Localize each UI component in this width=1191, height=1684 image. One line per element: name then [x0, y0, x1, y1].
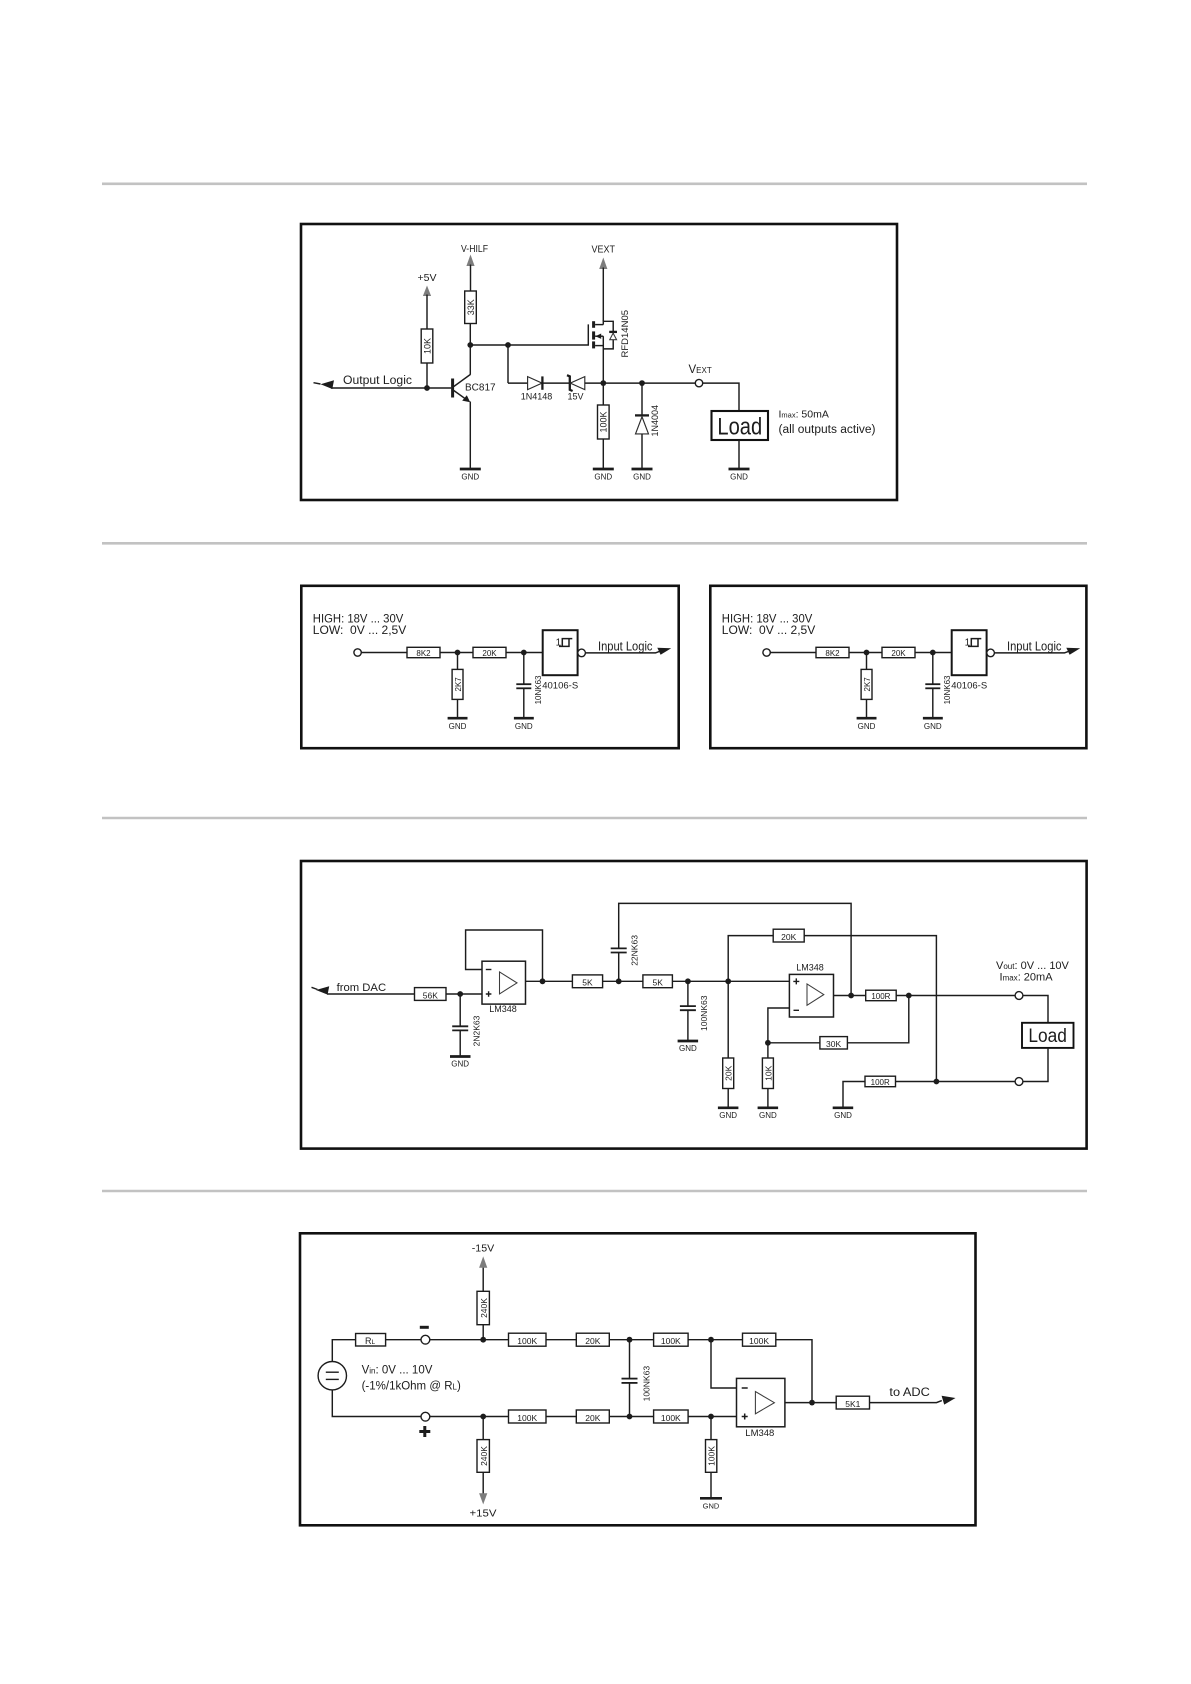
wire 8K2 to 20K (b) [849, 652, 882, 654]
svg-text:GND: GND [449, 722, 467, 731]
node collector [467, 342, 473, 348]
svg-text:+15V: +15V [470, 1508, 497, 1519]
node plus input tee [708, 1414, 714, 1420]
svg-text:240K: 240K [479, 1298, 489, 1318]
annotation Imax [779, 409, 876, 436]
svg-text:Vin: 0V ... 10V: Vin: 0V ... 10V [362, 1364, 433, 1376]
wire opamp2 minus input [768, 1008, 790, 1043]
separator rule 1 [102, 183, 1087, 186]
svg-text:10K: 10K [763, 1065, 773, 1080]
node 22NK63 [616, 978, 622, 984]
capacitor 2N2K63 [452, 994, 481, 1056]
ground (20K) [718, 1108, 739, 1120]
node 240K bottom [480, 1414, 486, 1420]
svg-text:Imax: 20mA: Imax: 20mA [1000, 971, 1054, 983]
ground (10K) [758, 1108, 779, 1120]
wire to load top [1023, 996, 1048, 1023]
node cap bottom [627, 1414, 633, 1420]
svg-text:20K: 20K [585, 1336, 600, 1346]
voltage source Vin [318, 1362, 346, 1390]
resistor 5K1 [836, 1396, 869, 1409]
terminal Vout plus [1015, 992, 1023, 1000]
svg-text:GND: GND [451, 1060, 469, 1069]
svg-text:GND: GND [719, 1111, 737, 1120]
svg-text:-15V: -15V [472, 1244, 495, 1255]
node output feedback [809, 1400, 815, 1406]
node minus input tee [708, 1337, 714, 1343]
node return junction [934, 1079, 940, 1085]
capacitor 10NK63 [516, 653, 543, 718]
resistor 8K2 (b) [816, 647, 849, 658]
svg-text:100K: 100K [661, 1336, 681, 1346]
wire bottom run 1 [430, 1416, 509, 1418]
svg-text:100K: 100K [517, 1336, 537, 1346]
svg-text:100R: 100R [871, 992, 890, 1001]
node base junction [424, 385, 430, 391]
separator rule 4 [102, 1190, 1087, 1193]
pin output bubble (b) [987, 649, 995, 657]
svg-text:100K: 100K [599, 411, 609, 432]
svg-text:20K: 20K [724, 1065, 734, 1080]
svg-text:V-HILF: V-HILF [461, 243, 488, 255]
separator rule 2 [102, 542, 1087, 545]
svg-text:to ADC: to ADC [889, 1387, 930, 1399]
ground (emitter) [460, 469, 481, 482]
svg-text:10K: 10K [422, 338, 432, 354]
diode D2 1N4004 [635, 383, 660, 469]
ground (2N2K63) [450, 1057, 471, 1069]
op-amp U3 LM348 buffer [482, 961, 526, 1014]
schematic frame 4 [300, 1233, 976, 1525]
diode D1 1N4148 [521, 376, 553, 401]
resistor 10K to ground [762, 1043, 773, 1108]
ground 2K7 (b) [857, 718, 877, 731]
svg-text:LM348: LM348 [489, 1004, 517, 1014]
node input [457, 991, 463, 997]
wire top run 4 [688, 1339, 742, 1341]
svg-text:5K: 5K [652, 978, 663, 988]
svg-text:2K7: 2K7 [863, 677, 872, 692]
annotation Vout [996, 960, 1070, 983]
zener diode 15V [567, 375, 585, 401]
svg-text:GND: GND [461, 473, 479, 482]
node feedback [540, 978, 546, 984]
wire output [585, 651, 661, 653]
wire zener to VEXT terminal [585, 382, 696, 384]
supply VEXT (drain) [592, 244, 616, 322]
svg-text:100K: 100K [749, 1336, 769, 1346]
resistor 100K to ground [706, 1417, 717, 1498]
wire base [331, 387, 451, 389]
svg-text:1N4004: 1N4004 [650, 405, 660, 437]
svg-text:100K: 100K [517, 1413, 537, 1423]
svg-text:15V: 15V [567, 392, 583, 402]
svg-text:LM348: LM348 [745, 1428, 774, 1439]
wire 10K to base [426, 363, 428, 388]
wire opamp1 output [526, 980, 573, 982]
wire 56K to opamp [446, 993, 482, 995]
load block [712, 411, 769, 440]
schematic frame 2b [710, 586, 1086, 748]
ground 10NK63 (b) [923, 718, 943, 731]
pin output bubble [578, 649, 586, 657]
svg-text:HIGH: 18V ... 30V: HIGH: 18V ... 30V [313, 613, 404, 625]
wire feedback loop opamp1 [466, 930, 543, 981]
resistor 100K top first [509, 1333, 547, 1346]
svg-text:100NK63: 100NK63 [642, 1366, 652, 1402]
schematic frame 3 [301, 861, 1087, 1149]
svg-text:GND: GND [633, 473, 651, 482]
svg-text:100NK63: 100NK63 [699, 995, 709, 1031]
node output feedback [848, 993, 854, 999]
svg-text:Load: Load [717, 413, 762, 440]
wire source bottom [332, 1390, 421, 1417]
wire RL to terminal [386, 1339, 421, 1341]
terminal arrow from DAC [312, 986, 330, 994]
terminal plus [421, 1412, 430, 1421]
resistor 100R bottom [843, 1076, 1015, 1108]
supply +5V [418, 272, 437, 329]
wire between diodes [542, 382, 569, 384]
wire to diode [508, 382, 528, 384]
svg-text:8K2: 8K2 [825, 649, 840, 658]
wire collector to gate tee [470, 344, 508, 346]
svg-text:240K: 240K [479, 1446, 489, 1466]
ground (10NK63) [514, 718, 534, 731]
svg-text:(-1%/1kOhm @ RL): (-1%/1kOhm @ RL) [362, 1381, 461, 1393]
node minus divider [765, 1040, 771, 1046]
schematic frame 2a [301, 586, 678, 748]
svg-text:VEXT: VEXT [592, 244, 616, 256]
resistor 100K bottom first [509, 1410, 547, 1423]
wire gate [508, 324, 588, 345]
node gate tee [505, 342, 511, 348]
terminal Vout minus [1015, 1078, 1023, 1086]
node cap top [627, 1337, 633, 1343]
terminal arrow Input Logic [657, 648, 671, 655]
resistor 20K [473, 647, 506, 658]
resistor 100K feedback [743, 1333, 813, 1402]
svg-text:(all outputs active): (all outputs active) [779, 424, 876, 436]
supply +15V [470, 1472, 497, 1519]
ground (100NK63) [678, 1041, 699, 1053]
svg-text:LOW: 0V ... 2,5V: LOW: 0V ... 2,5V [313, 625, 407, 637]
wire to ADC [870, 1401, 942, 1403]
wire opamp output [785, 1402, 836, 1404]
load block 2 [1022, 1023, 1074, 1048]
node divider (b) [864, 650, 870, 656]
svg-text:VEXT: VEXT [689, 364, 712, 376]
svg-text:40106-S: 40106-S [951, 681, 987, 692]
capacitor 10NK63 (b) [925, 653, 952, 718]
svg-text:BC817: BC817 [465, 383, 496, 394]
wire to opamp2 plus [672, 980, 789, 982]
svg-text:GND: GND [759, 1111, 777, 1120]
resistor 100K top second [654, 1333, 689, 1346]
ground (load) [729, 440, 750, 482]
svg-text:RFD14N05: RFD14N05 [620, 310, 631, 358]
separator rule 3 [102, 817, 1087, 820]
resistor 20K bottom [576, 1410, 609, 1423]
wire source top [332, 1340, 355, 1362]
svg-text:22NK63: 22NK63 [629, 935, 639, 966]
node source junction [600, 380, 606, 386]
schematic frame 1 [301, 224, 897, 500]
resistor 56K [415, 988, 447, 1001]
svg-text:100K: 100K [707, 1446, 717, 1466]
resistor 8K2 [407, 647, 440, 658]
annotation Vin [362, 1364, 461, 1392]
resistor 2K7 [452, 653, 463, 718]
svg-text:GND: GND [730, 473, 748, 482]
wire top run 1 [430, 1339, 509, 1341]
wire gate-node drop [507, 345, 509, 383]
resistor 5K first [572, 975, 602, 988]
resistor 5K second [643, 975, 673, 988]
resistor 2K7 (b) [861, 653, 872, 718]
node 240K top [480, 1337, 486, 1343]
resistor 10K [421, 329, 433, 363]
terminal arrow to ADC [942, 1396, 956, 1405]
svg-text:Vout: 0V ... 10V: Vout: 0V ... 10V [996, 960, 1070, 972]
svg-text:GND: GND [515, 722, 533, 731]
svg-text:Output Logic: Output Logic [343, 375, 412, 387]
resistor 100R top [866, 990, 897, 1001]
svg-text:20K: 20K [482, 649, 497, 658]
ground (100K) [593, 469, 614, 482]
capacitor 100NK63 [680, 981, 709, 1041]
wire 20K to gate (b) [915, 652, 952, 654]
svg-text:from DAC: from DAC [337, 982, 387, 994]
resistor 20K to ground [723, 981, 734, 1107]
svg-text:5K: 5K [582, 978, 593, 988]
op-amp U4 LM348 output [789, 963, 833, 1017]
wire bottom run 3 [609, 1416, 653, 1418]
terminal input (b) [763, 649, 770, 656]
svg-text:30K: 30K [826, 1039, 841, 1049]
wire to opamp minus [711, 1340, 737, 1388]
svg-text:8K2: 8K2 [416, 649, 431, 658]
node filter [521, 650, 527, 656]
terminal input [354, 649, 361, 656]
node sense [906, 993, 912, 999]
svg-text:20K: 20K [891, 649, 906, 658]
wire 33K to collector node [469, 324, 471, 346]
terminal arrow Input Logic (b) [1066, 648, 1080, 655]
resistor 240K top [477, 1291, 489, 1339]
polarity label minus [420, 1326, 429, 1329]
svg-text:1N4148: 1N4148 [521, 392, 553, 402]
terminal minus [421, 1335, 430, 1344]
resistor 100K pull-down [598, 383, 610, 469]
resistor 100K bottom second [654, 1410, 689, 1423]
ground (return) [833, 1108, 854, 1120]
wire 100R to terminal [896, 995, 1015, 997]
svg-text:GND: GND [834, 1111, 852, 1120]
svg-text:GND: GND [679, 1044, 697, 1053]
wire input (b) [770, 652, 816, 654]
resistor 33K [465, 291, 477, 324]
svg-text:40106-S: 40106-S [542, 681, 578, 692]
schmitt trigger U1 40106-S [542, 630, 578, 692]
ground (2K7) [448, 718, 468, 731]
schmitt trigger U2 40106-S (b) [951, 630, 987, 692]
op-amp U5 LM348 difference [737, 1378, 785, 1438]
svg-text:100K: 100K [661, 1413, 681, 1423]
wire input [361, 652, 407, 654]
polarity label plus [419, 1426, 430, 1437]
svg-text:Input Logic: Input Logic [598, 640, 653, 654]
svg-text:GND: GND [703, 1502, 720, 1511]
svg-text:20K: 20K [585, 1413, 600, 1423]
wire DAC input [327, 993, 415, 995]
svg-text:33K: 33K [466, 299, 476, 315]
resistor 20K feedback top [728, 929, 936, 1081]
svg-text:Load: Load [1028, 1026, 1067, 1047]
svg-text:Imax: 50mA: Imax: 50mA [779, 409, 829, 421]
svg-text:LM348: LM348 [796, 963, 824, 973]
terminal arrow Output Logic [314, 380, 335, 389]
node 100NK63 [685, 978, 691, 984]
resistor 30K feedback [768, 996, 909, 1050]
wire top run 2 [546, 1339, 576, 1341]
transistor Q2 RFD14N05 mosfet [594, 310, 631, 383]
node filter (b) [930, 650, 936, 656]
wire bottom run 4 [688, 1416, 736, 1418]
svg-text:5K1: 5K1 [845, 1399, 860, 1409]
wire opamp2 output [834, 995, 866, 997]
svg-text:100R: 100R [871, 1078, 890, 1087]
svg-text:GND: GND [924, 722, 942, 731]
svg-text:GND: GND [594, 473, 612, 482]
wire bottom run 2 [546, 1416, 576, 1418]
terminal VEXT [689, 364, 712, 387]
node 1N4004 junction [639, 380, 645, 386]
wire output (b) [994, 651, 1070, 653]
wire 8K2 to 20K [440, 652, 473, 654]
svg-text:20K: 20K [781, 932, 796, 942]
transistor Q1 BC817 [453, 345, 496, 469]
resistor 20K (b) [882, 647, 915, 658]
supply -15V [472, 1244, 495, 1292]
capacitor 22NK63 feedback [611, 903, 851, 995]
svg-text:+5V: +5V [418, 272, 437, 284]
svg-text:LOW: 0V ... 2,5V: LOW: 0V ... 2,5V [722, 625, 816, 637]
capacitor 100NK63 differential [622, 1340, 652, 1417]
svg-text:56K: 56K [423, 990, 438, 1000]
svg-text:2N2K63: 2N2K63 [472, 1015, 482, 1046]
wire between 5K [603, 980, 643, 982]
supply V-HILF [461, 243, 488, 291]
resistor 240K bottom [477, 1417, 489, 1473]
ground (100K) [700, 1498, 722, 1510]
svg-text:GND: GND [858, 722, 876, 731]
wire VEXT to load [703, 383, 739, 411]
svg-text:HIGH: 18V ... 30V: HIGH: 18V ... 30V [722, 613, 813, 625]
node 20K tee [725, 978, 731, 984]
resistor 20K top [576, 1333, 609, 1346]
ground (1N4004) [632, 469, 653, 482]
wire load bottom [1023, 1048, 1048, 1082]
node divider [455, 650, 461, 656]
wire top run 3 [609, 1339, 653, 1341]
svg-text:Input Logic: Input Logic [1007, 640, 1062, 654]
svg-text:2K7: 2K7 [454, 677, 463, 692]
wire 20K to gate [506, 652, 543, 654]
resistor RL [356, 1334, 386, 1347]
